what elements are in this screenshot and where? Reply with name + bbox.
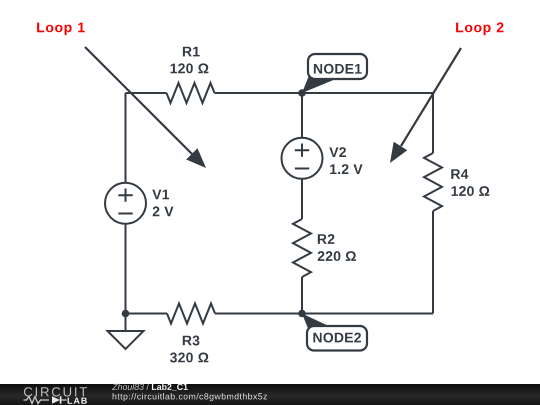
voltage source V1 [105, 183, 146, 224]
R3 value 320 ohm [170, 353, 208, 363]
wire bottom-right segment [215, 313, 433, 315]
voltage source V2 [282, 138, 323, 179]
R4 label [451, 169, 468, 179]
wire left branch lower [125, 224, 127, 314]
Loop 1 arrow [85, 47, 206, 168]
R2 label [318, 234, 335, 244]
V1 label [152, 190, 169, 200]
CircuitLab logo LAB text [68, 398, 87, 404]
wire middle branch upper [301, 93, 303, 138]
footer bar [0, 384, 540, 405]
Loop 2 annotation label [456, 22, 503, 35]
Loop 1 annotation label [37, 23, 85, 35]
R4 value 120 ohm [452, 186, 490, 196]
V1 value 2 V [153, 206, 174, 216]
R3 label [183, 336, 200, 346]
node NODE2 junction dot [298, 310, 306, 318]
wire right branch upper [432, 93, 434, 153]
Loop 2 arrow [390, 48, 461, 163]
CircuitLab logo CIRCUIT text [24, 387, 87, 396]
R1 label [183, 47, 200, 57]
V2 label [329, 147, 346, 157]
R2 value 220 ohm [318, 251, 356, 261]
wire top-right segment [215, 92, 434, 94]
resistor R3 [167, 304, 215, 324]
resistor R4 [424, 153, 442, 211]
wire top-left segment [126, 92, 167, 94]
wire left branch upper [125, 93, 127, 183]
wire middle between V2 and R2 [301, 179, 303, 219]
wire bottom-left segment [126, 313, 168, 315]
wire middle lower [301, 277, 303, 314]
node NODE2 callout [302, 314, 367, 351]
CircuitLab logo resistor-diode symbol [24, 396, 67, 403]
V2 value 1.2 V [330, 164, 363, 174]
node ground junction dot [122, 310, 130, 318]
node NODE1 junction dot [298, 89, 306, 97]
ground [108, 314, 144, 350]
footer author and title text [112, 384, 188, 392]
footer url text [113, 393, 267, 401]
node NODE1 callout [302, 54, 367, 93]
resistor R1 [167, 83, 215, 103]
R1 value 120 ohm [171, 63, 209, 73]
wire right branch lower [432, 211, 434, 314]
resistor R2 [293, 219, 311, 277]
